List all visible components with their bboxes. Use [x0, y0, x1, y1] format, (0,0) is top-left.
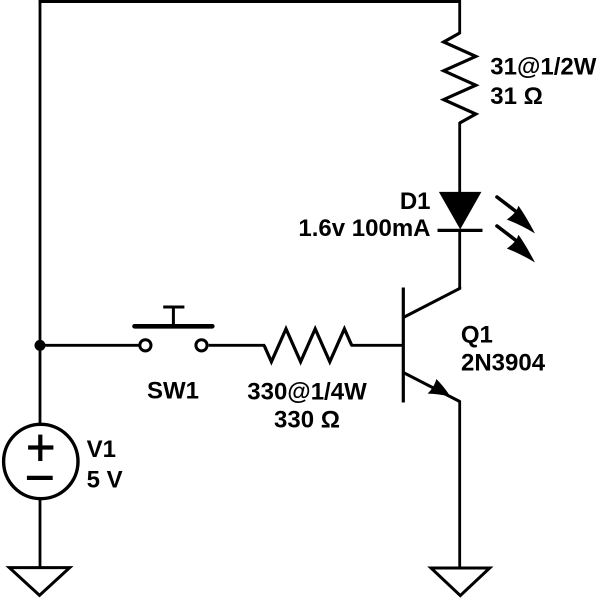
- LED emission arrow 1: [497, 197, 535, 234]
- wire right vertical top: [458, 0, 461, 34]
- svg-text:31@1/2W: 31@1/2W: [490, 54, 596, 81]
- wire emitter to ground: [458, 401, 460, 568]
- switch SW1: [135, 307, 213, 351]
- svg-text:5 V: 5 V: [87, 466, 123, 493]
- wire resistor to LED: [458, 122, 461, 194]
- V1 plus sign: [28, 435, 53, 461]
- LED D1 cathode bar: [438, 229, 483, 232]
- LED emission arrow 2: [497, 226, 535, 263]
- voltage source V1 circle: [4, 424, 78, 498]
- SW1 stem cap: [163, 306, 184, 309]
- wire left vertical: [39, 0, 42, 424]
- svg-text:D1: D1: [400, 188, 431, 215]
- transistor Q1 collector lead: [403, 287, 459, 318]
- wire LED to collector corner: [458, 229, 461, 289]
- svg-text:Q1: Q1: [461, 321, 493, 348]
- wire switch to resistor: [209, 344, 265, 347]
- transistor Q1 emitter lead: [403, 373, 459, 402]
- junction dot node A: [35, 340, 46, 351]
- resistor 330 ohm: [264, 329, 352, 362]
- ground left: [9, 568, 69, 596]
- wire top horizontal: [39, 0, 460, 3]
- svg-text:SW1: SW1: [147, 378, 199, 405]
- SW1 actuator bar: [135, 324, 213, 329]
- svg-text:330 Ω: 330 Ω: [274, 407, 340, 434]
- ground right: [431, 568, 490, 596]
- resistor R 31 ohm: [444, 33, 476, 123]
- wire resistor to base: [351, 344, 404, 347]
- V1 minus sign: [27, 476, 53, 480]
- svg-text:31 Ω: 31 Ω: [490, 83, 543, 110]
- svg-text:2N3904: 2N3904: [461, 349, 546, 376]
- SW1 stem: [172, 307, 175, 326]
- SW1 right terminal: [196, 340, 207, 351]
- svg-text:1.6v 100mA: 1.6v 100mA: [298, 215, 430, 242]
- wire V1 to ground: [39, 499, 42, 568]
- wire junction to switch: [40, 344, 139, 347]
- SW1 left terminal: [140, 340, 151, 351]
- transistor Q1 base bar: [402, 288, 405, 403]
- transistor Q1 emitter arrowhead: [428, 379, 451, 397]
- svg-text:V1: V1: [87, 436, 116, 463]
- svg-text:330@1/4W: 330@1/4W: [247, 378, 367, 405]
- LED D1 triangle: [441, 193, 480, 228]
